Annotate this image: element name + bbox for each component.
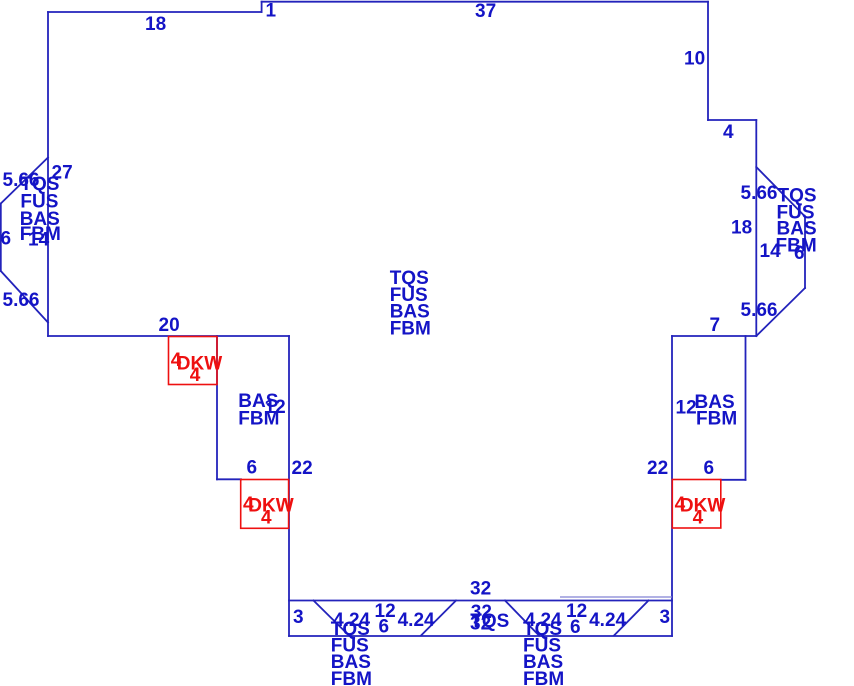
wire top wall segment 37 (262, 1, 708, 3)
svg-text:10: 10 (684, 48, 705, 69)
svg-text:22: 22 (292, 458, 313, 479)
wire segment 7 top of right room (672, 335, 756, 337)
right room right edge 12 (745, 336, 747, 480)
wire top-left wall segment 18 (48, 11, 262, 13)
svg-text:TQS: TQS (470, 611, 509, 632)
right bay upper diagonal 5.66 (756, 167, 805, 217)
wire right inner wall down to band (671, 336, 673, 636)
DKW box 3 (672, 480, 721, 529)
DKW box 2 (241, 480, 289, 529)
svg-text:18: 18 (731, 218, 752, 239)
svg-text:6: 6 (379, 617, 390, 638)
right bay vertical 6 (804, 217, 806, 289)
svg-text:6: 6 (247, 458, 258, 479)
right bay lower diagonal 5.66 (756, 288, 805, 336)
wire right wall (755, 120, 757, 336)
svg-text:37: 37 (475, 1, 496, 22)
svg-text:3: 3 (660, 607, 671, 628)
svg-text:3: 3 (293, 607, 304, 628)
wire segment 20 bottom-left wall (48, 335, 289, 337)
svg-text:32: 32 (470, 579, 491, 600)
wire left wall (47, 12, 49, 336)
left room bottom edge 6 (217, 478, 241, 480)
svg-text:FBM: FBM (390, 318, 431, 339)
svg-text:FBM: FBM (238, 409, 279, 430)
svg-text:4: 4 (693, 508, 704, 529)
svg-text:6: 6 (1, 229, 12, 250)
svg-text:1: 1 (266, 1, 277, 22)
svg-text:4: 4 (261, 508, 272, 529)
wire step up at node 1 (261, 2, 263, 12)
svg-text:5.66: 5.66 (741, 300, 778, 321)
left bay upper diagonal 5.66 (1, 158, 48, 204)
DKW box 1 (169, 337, 218, 385)
wire left inner wall (288, 336, 290, 636)
svg-text:4: 4 (190, 365, 201, 386)
svg-text:18: 18 (145, 14, 166, 35)
svg-text:5.66: 5.66 (741, 183, 778, 204)
wire right upper wall segment 10 (707, 2, 709, 120)
left bay vertical 6 (0, 204, 2, 272)
wire band bottom edge (289, 635, 672, 637)
right room bottom edge 6 (721, 479, 746, 481)
svg-text:4.24: 4.24 (589, 610, 626, 631)
band brace right up-diagonal (614, 601, 649, 636)
svg-text:14: 14 (760, 241, 782, 262)
svg-text:7: 7 (710, 315, 721, 336)
faint ledger line (560, 596, 672, 598)
band brace left up-diagonal (421, 601, 456, 636)
svg-text:20: 20 (159, 315, 180, 336)
left bay lower diagonal 5.66 (1, 271, 48, 323)
svg-text:14: 14 (28, 229, 50, 250)
band brace left down-diagonal (314, 601, 350, 636)
svg-text:12: 12 (676, 398, 697, 419)
svg-text:6: 6 (794, 243, 805, 264)
left room left edge 12 (216, 336, 218, 479)
svg-text:4.24: 4.24 (398, 610, 435, 631)
svg-text:6: 6 (570, 617, 581, 638)
svg-text:FBM: FBM (523, 669, 564, 686)
svg-text:FBM: FBM (696, 409, 737, 430)
svg-text:FBM: FBM (331, 669, 372, 686)
wire step right segment 4 (708, 119, 756, 121)
svg-text:4: 4 (723, 122, 734, 143)
svg-text:22: 22 (647, 458, 668, 479)
svg-text:5.66: 5.66 (3, 290, 40, 311)
band top chord (289, 600, 672, 602)
svg-text:6: 6 (704, 458, 715, 479)
band brace right down-diagonal (505, 601, 539, 636)
